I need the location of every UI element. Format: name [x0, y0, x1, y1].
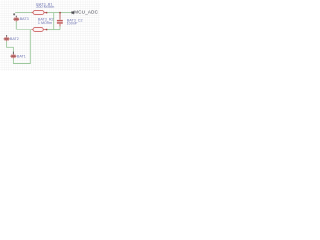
svg-text:BAT3: BAT3	[20, 17, 29, 21]
svg-text:BAT1: BAT1	[17, 55, 26, 59]
svg-text:BAT2: BAT2	[10, 37, 19, 41]
svg-text:200 KOhm: 200 KOhm	[36, 5, 54, 9]
svg-text:1 MOhm: 1 MOhm	[38, 21, 52, 25]
svg-text:MCU_ADC: MCU_ADC	[74, 9, 98, 14]
svg-text:100nF: 100nF	[67, 21, 78, 25]
